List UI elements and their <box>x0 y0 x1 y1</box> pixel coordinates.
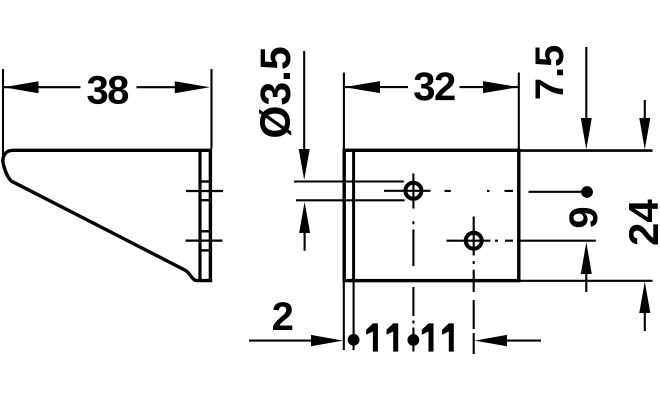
hole H2 vertical extension solid at dim line <box>473 333 475 354</box>
dim 38 left arrowhead <box>4 81 39 93</box>
dim 11 second text <box>422 323 434 351</box>
dia 3.5 upper leader line <box>303 51 305 152</box>
hole H1 horizontal centerline <box>384 190 431 192</box>
dim 24 lower leader line <box>644 311 646 331</box>
dim 38 left extension line <box>2 69 4 155</box>
dim 32 line right segment <box>460 86 519 88</box>
side view outline <box>3 150 212 280</box>
svg-text:38: 38 <box>86 69 129 113</box>
side view hole2 top edge tick <box>199 230 209 232</box>
side view plate inner face <box>198 152 201 280</box>
hole H2 horizontal centerline <box>447 240 491 242</box>
dim 9 leader line <box>585 272 587 292</box>
svg-text:24: 24 <box>620 199 660 246</box>
side view hole1 bottom edge tick <box>199 199 209 201</box>
dim 11 first text <box>366 323 378 351</box>
hole H1 vertical extension solid at dim line <box>412 328 414 352</box>
front view bend line (2mm face) <box>352 152 355 279</box>
dim 7.5 leader line <box>585 47 587 120</box>
hole H1 centerline solid to dot <box>529 191 583 193</box>
svg-text:7.5: 7.5 <box>528 45 572 101</box>
dim 32 left extension line <box>343 73 345 150</box>
dia 3.5 lower leader line <box>304 231 306 251</box>
dia 3.5 down arrowhead <box>299 149 310 180</box>
svg-text:Ø3.5: Ø3.5 <box>253 46 300 138</box>
svg-text:9: 9 <box>562 208 606 229</box>
dim 38 line left segment <box>4 86 81 88</box>
hole H1 <box>405 183 421 199</box>
dim 32 line left segment <box>344 86 408 88</box>
dim 24 up arrowhead <box>639 282 650 314</box>
dim 38 line right segment <box>137 86 181 88</box>
dim 38 right arrowhead <box>175 81 210 93</box>
dim 7.5 down arrowhead <box>581 118 592 150</box>
side view plate outer face <box>209 150 212 280</box>
bottom extension line left edge <box>343 282 345 351</box>
dim 9 up arrowhead <box>581 242 592 274</box>
dim chain dot at bend face <box>348 334 360 346</box>
dim 24 upper leader line <box>644 100 646 120</box>
hole H2 vertical centerline <box>473 217 475 256</box>
dim 38 right extension line <box>210 69 212 149</box>
dim 7.5 / 9 shared dot <box>581 186 593 198</box>
hole H1 centerline dash-dot right <box>445 190 514 192</box>
front view rectangle <box>344 150 519 280</box>
hole H2 centerline solid right <box>517 240 596 242</box>
svg-text:2: 2 <box>272 295 293 339</box>
hole H2 <box>466 233 482 249</box>
dia 3.5 up arrowhead <box>299 202 310 233</box>
side view hole1 centerline tick <box>186 190 223 192</box>
bottom extension line bend face <box>353 282 355 351</box>
top right extension line <box>520 149 653 152</box>
dim chain dot at hole H1 <box>407 334 419 346</box>
dim 11 left-pointing arrowhead <box>475 335 507 346</box>
hole H2 centerline dash-dot right <box>495 240 513 242</box>
dim 32 left arrowhead <box>344 81 380 93</box>
svg-text:32: 32 <box>413 65 455 109</box>
dim 2 right-pointing arrowhead <box>311 335 343 346</box>
dim 24 down arrowhead <box>639 118 650 150</box>
side view hole2 centerline tick <box>186 240 223 242</box>
hole H1 vertical centerline dash-dot down <box>412 221 414 323</box>
dim 2 line <box>249 340 312 342</box>
dia 3.5 top tangent extension <box>294 180 404 182</box>
hole H1 vertical centerline <box>412 174 414 209</box>
hole H2 vertical centerline dash-dot down <box>473 261 475 329</box>
dia 3.5 bottom tangent extension <box>296 199 405 201</box>
dim 11 line right segment <box>507 340 541 342</box>
side view hole2 bottom edge tick <box>199 249 209 251</box>
side view hole1 top edge tick <box>199 180 209 182</box>
bottom right extension line <box>520 280 653 282</box>
dim 32 right extension line <box>518 73 520 150</box>
dim 32 right arrowhead <box>483 81 519 93</box>
